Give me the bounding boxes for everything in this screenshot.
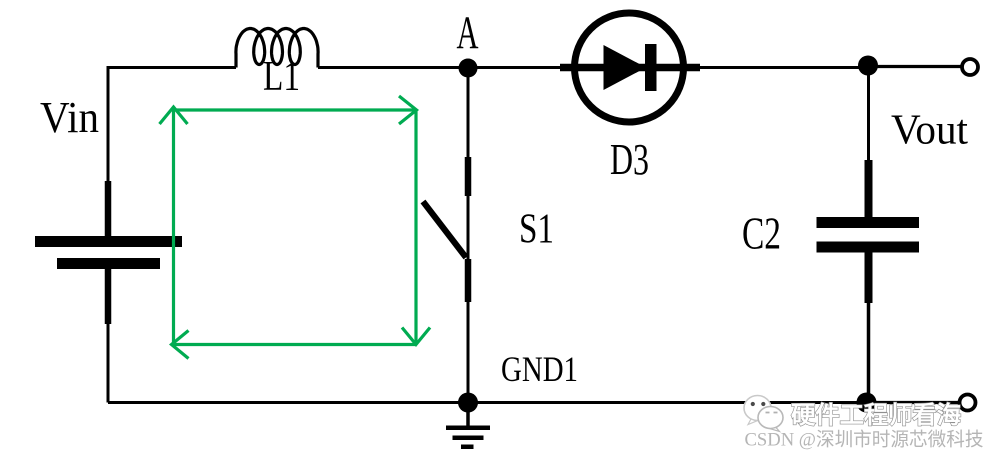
wire node A to diode	[468, 66, 562, 69]
inductor L1	[236, 29, 318, 68]
diode D3	[560, 13, 700, 122]
wire node to Vout terminal	[868, 65, 962, 68]
current loop arrow right (down)	[402, 110, 430, 345]
terminal bottom open circle	[960, 395, 976, 411]
current loop arrow left (up)	[160, 107, 188, 345]
wire bottom horizontal left segment	[108, 401, 468, 404]
wire capacitor to bottom node	[867, 302, 871, 403]
capacitor C2	[817, 160, 920, 303]
svg-text:C2: C2	[742, 208, 781, 259]
svg-text:D3: D3	[610, 135, 649, 184]
wire bottom horizontal middle segment	[468, 401, 866, 404]
ground	[446, 402, 490, 449]
wire left vertical from top wire down to battery	[107, 66, 110, 182]
wire battery bottom lead	[107, 323, 110, 403]
node GND1 junction dot	[458, 393, 478, 413]
current loop arrow top (right)	[174, 96, 417, 124]
svg-text:A: A	[457, 7, 479, 59]
wire inductor to node A	[318, 66, 468, 69]
node output top junction	[858, 56, 878, 76]
svg-text:GND1: GND1	[501, 349, 578, 389]
current loop arrow bottom (left)	[172, 331, 417, 359]
svg-text:Vout: Vout	[891, 108, 968, 154]
svg-text:CSDN @深圳市时源芯微科技: CSDN @深圳市时源芯微科技	[745, 429, 984, 451]
wire top-left horizontal from battery to inductor	[108, 66, 236, 69]
svg-text:S1: S1	[519, 207, 554, 253]
svg-text:Vin: Vin	[40, 93, 99, 142]
svg-text:硬件工程师看海: 硬件工程师看海	[791, 401, 961, 429]
watermark icon wechat bubbles	[744, 396, 783, 432]
node A junction dot	[459, 59, 478, 78]
svg-text:L1: L1	[263, 54, 300, 100]
terminal Vout open circle	[962, 59, 978, 75]
wire diode to output node	[700, 66, 868, 69]
wire bottom node to terminal	[866, 401, 960, 404]
switch S1	[423, 68, 468, 402]
node output bottom junction	[857, 393, 877, 413]
battery Vin	[35, 181, 182, 324]
wire output vertical from top node to capacitor	[867, 65, 870, 218]
